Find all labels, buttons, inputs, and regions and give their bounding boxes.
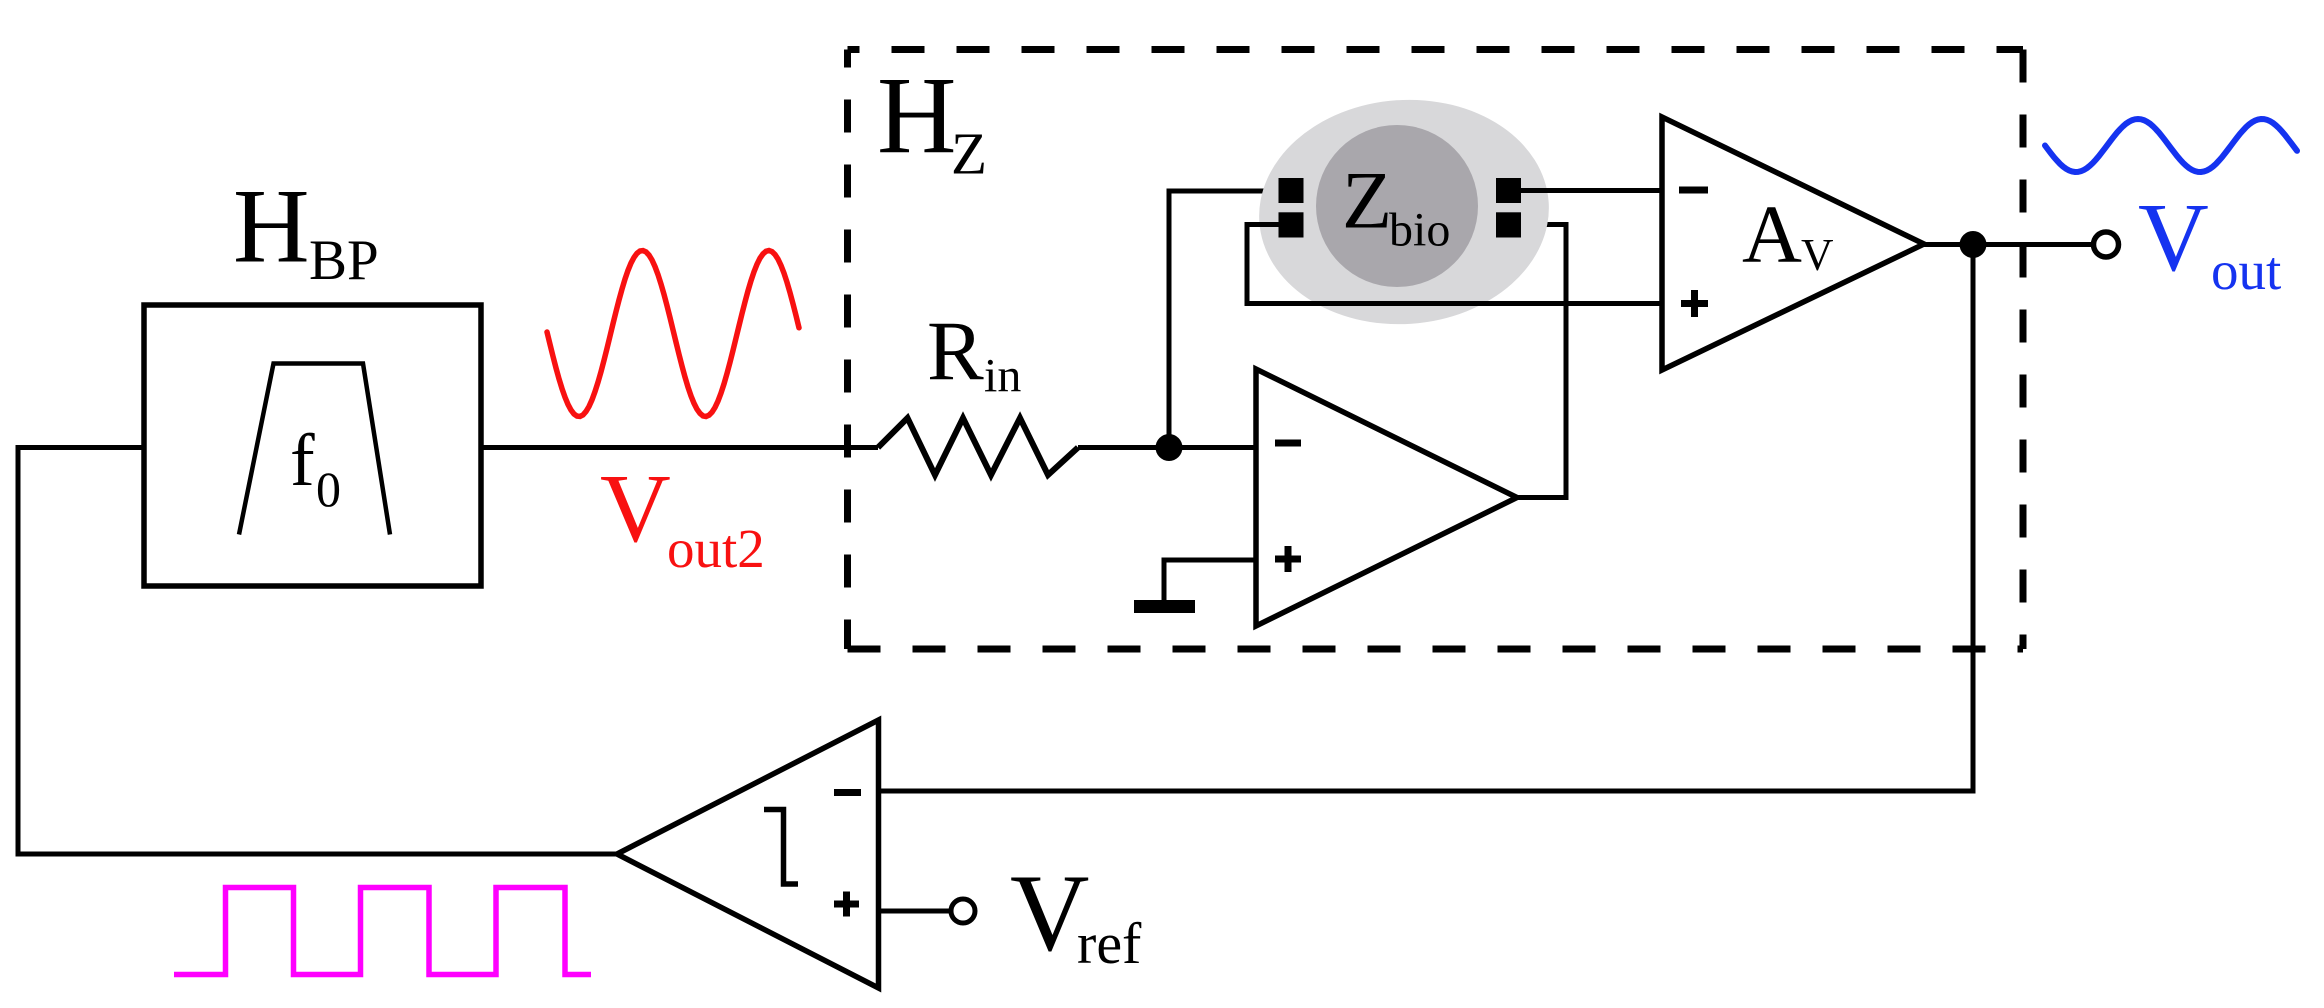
label V_ref: [1010, 852, 1142, 976]
U3 plus sign: [834, 892, 859, 917]
label H_BP: [233, 168, 379, 293]
label V_out: [2138, 184, 2281, 301]
block H_BP (bandpass filter): [144, 305, 481, 586]
electrode E3 (top right): [1496, 178, 1521, 203]
label A_V: [1742, 188, 1834, 280]
electrode E2 (bottom left): [1279, 212, 1304, 237]
svg-text:out: out: [2211, 240, 2281, 301]
svg-text:V: V: [600, 455, 671, 563]
wire comparator output to H_BP input (left feedback): [18, 448, 617, 855]
waveform red sine V_out2: [547, 251, 799, 417]
ground: [1134, 600, 1195, 613]
svg-text:Z: Z: [1342, 155, 1392, 246]
U1 minus sign: [1275, 440, 1301, 447]
U3 minus sign: [834, 789, 861, 796]
wire A_V output to V_out terminal: [1924, 242, 2092, 247]
svg-text:in: in: [984, 350, 1021, 403]
A_V plus sign: [1681, 290, 1708, 317]
wire R_in to op-amp U1 inverting input: [1078, 445, 1256, 450]
terminal V_out: [2094, 232, 2119, 257]
wire U3 non-inverting input to V_ref terminal: [879, 909, 951, 914]
wire electrode E3 to A_V inverting input: [1521, 188, 1663, 193]
svg-text:Z: Z: [951, 121, 987, 187]
U1 plus sign: [1275, 546, 1301, 572]
comparator U3: [617, 720, 879, 988]
svg-text:out2: out2: [667, 518, 765, 579]
label R_in: [927, 305, 1021, 403]
U3 step symbol: [764, 810, 798, 885]
node V_out junction: [1960, 231, 1987, 258]
svg-text:V: V: [1801, 230, 1834, 280]
wire V_out node down to comparator inverting input (feedback): [879, 245, 1974, 792]
svg-text:A: A: [1742, 188, 1802, 280]
svg-text:f: f: [290, 420, 315, 502]
bandpass response symbol: [239, 364, 390, 535]
waveform blue sine V_out: [2045, 119, 2297, 172]
svg-text:bio: bio: [1389, 204, 1450, 257]
wire U1 output up to electrode E4: [1517, 225, 1566, 498]
op-amp U1 (transimpedance): [1256, 369, 1517, 626]
waveform magenta square wave: [174, 888, 591, 975]
electrode E4 (bottom right): [1496, 212, 1521, 237]
wire H_BP output to R_in: [481, 445, 878, 450]
dashed box H_Z: [848, 50, 2024, 650]
svg-text:R: R: [927, 305, 984, 399]
label f0: [290, 420, 341, 517]
svg-text:V: V: [2138, 184, 2209, 292]
svg-text:ref: ref: [1077, 911, 1142, 976]
wire electrode E2 to A_V non-inverting input: [1247, 225, 1662, 304]
label H_Z: [877, 55, 987, 187]
svg-text:H: H: [233, 168, 310, 285]
svg-text:0: 0: [316, 461, 341, 517]
bio impedance Z_bio outer tissue blob: [1252, 90, 1557, 334]
resistor R_in: [878, 418, 1078, 475]
bio impedance Z_bio inner cell: [1316, 125, 1478, 287]
node junction at virtual ground: [1156, 434, 1183, 461]
svg-text:BP: BP: [309, 229, 379, 292]
A_V minus sign: [1679, 187, 1708, 194]
op-amp A_V: [1662, 117, 1924, 370]
svg-text:H: H: [877, 55, 956, 177]
wire junction up to electrode E1: [1169, 191, 1279, 448]
label V_out2: [600, 455, 765, 579]
wire U1 non-inverting input to ground: [1164, 560, 1256, 601]
terminal V_ref: [951, 899, 975, 923]
electrode E1 (top left): [1279, 178, 1304, 203]
label Z_bio: [1342, 155, 1450, 257]
